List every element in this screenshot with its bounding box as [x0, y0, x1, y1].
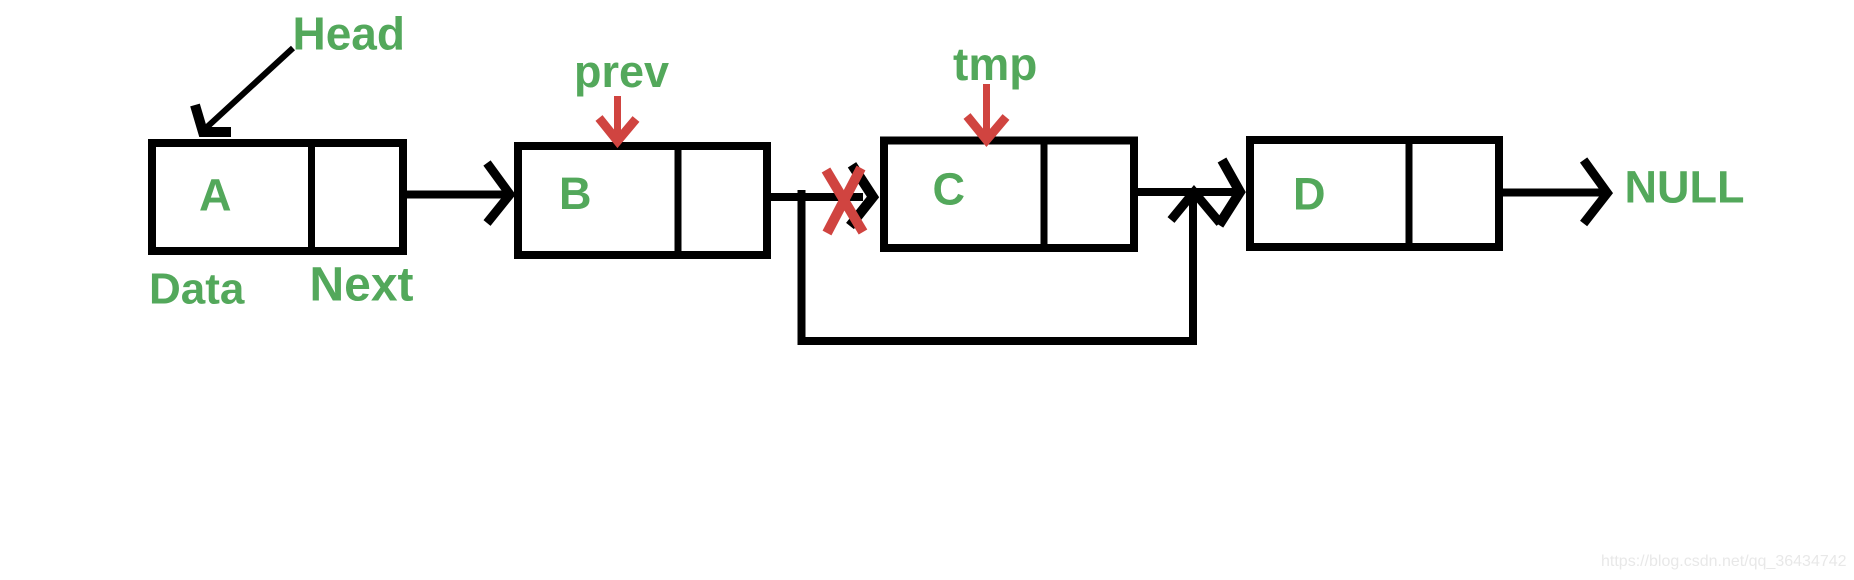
bypass wire from B around C to D: [802, 190, 1221, 341]
wire arrow B to C: [767, 165, 873, 226]
wire arrow C to D: [1134, 160, 1240, 225]
svg-text:NULL: NULL: [1625, 162, 1745, 213]
red X over B-C link: [826, 168, 863, 233]
tmp red arrow: [967, 84, 1006, 140]
svg-text:Head: Head: [293, 8, 405, 60]
wire arrow D to NULL: [1499, 160, 1607, 224]
prev red arrow: [599, 96, 636, 141]
node C box: [884, 141, 1134, 249]
node A box: [152, 143, 403, 251]
Head arrow: [195, 48, 293, 132]
svg-text:C: C: [933, 164, 966, 215]
svg-text:tmp: tmp: [953, 38, 1037, 90]
node B box: [518, 146, 767, 255]
svg-text:https://blog.csdn.net/qq_36434: https://blog.csdn.net/qq_36434742: [1601, 553, 1847, 570]
svg-text:D: D: [1293, 168, 1326, 219]
wire arrow A to B: [403, 163, 510, 223]
svg-text:Next: Next: [310, 259, 414, 312]
svg-text:Data: Data: [149, 265, 245, 314]
svg-text:prev: prev: [574, 46, 669, 97]
svg-text:B: B: [559, 168, 592, 219]
node D box: [1250, 140, 1499, 247]
svg-text:A: A: [199, 170, 232, 221]
